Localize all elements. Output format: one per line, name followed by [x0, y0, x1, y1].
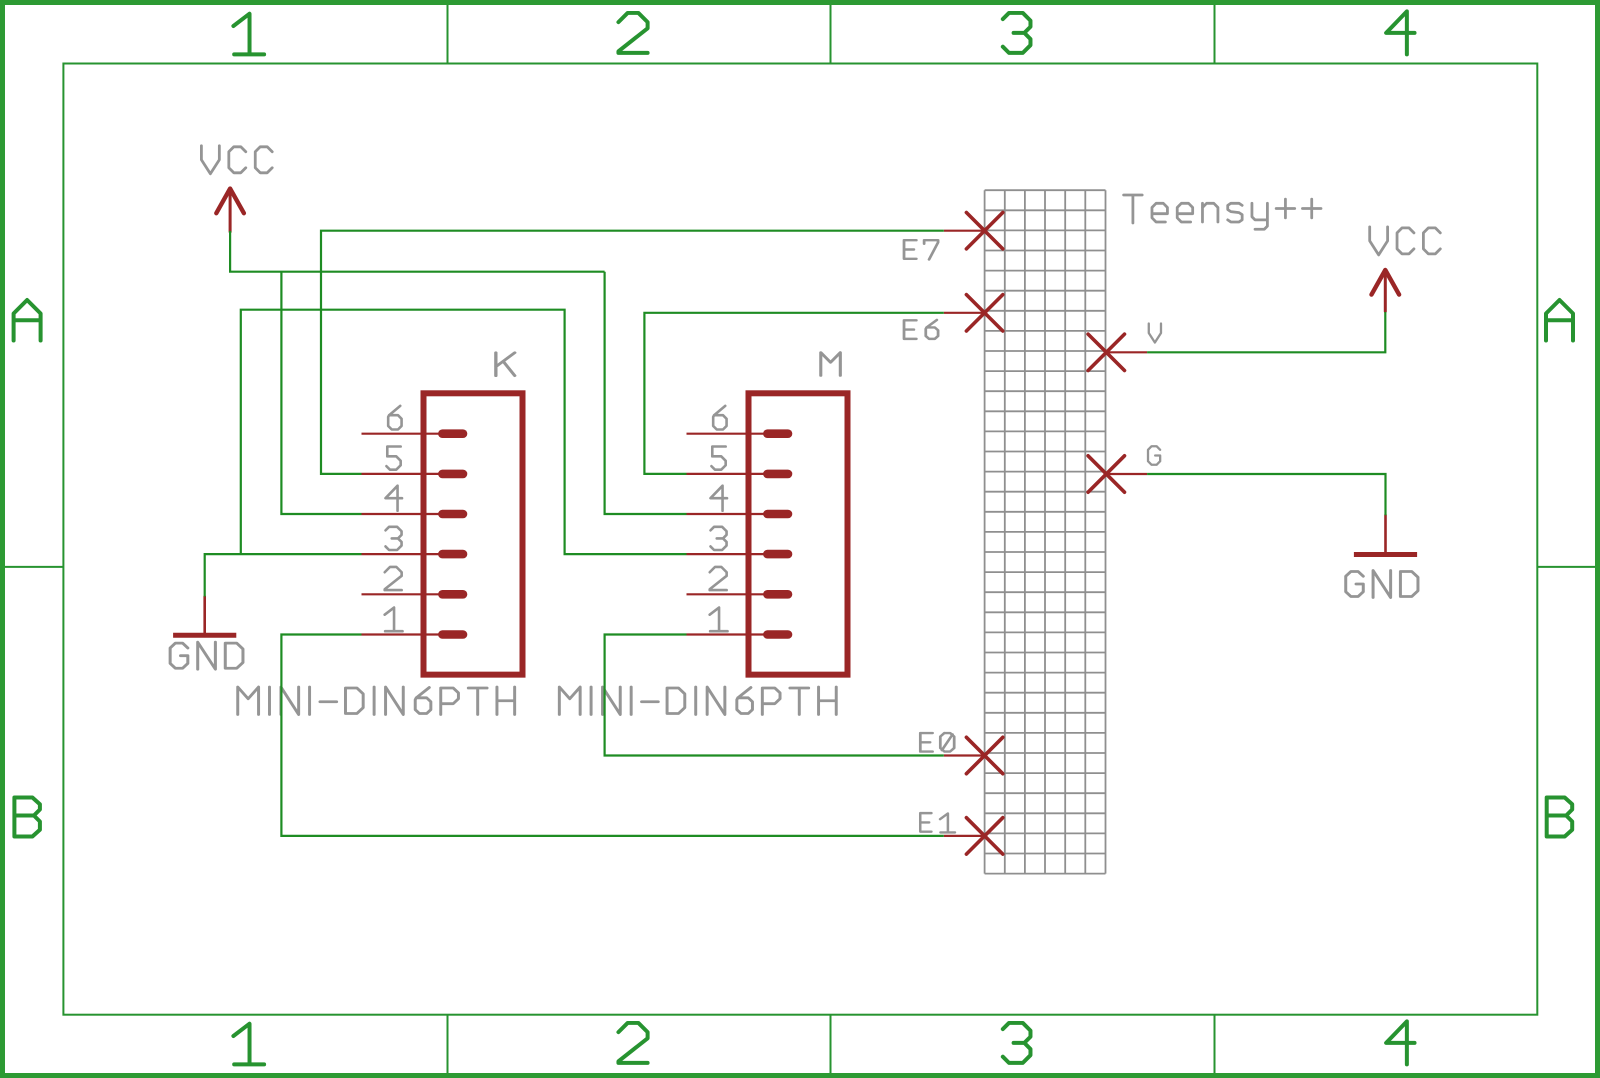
label Teensy++ — [1124, 195, 1321, 229]
label K — [496, 353, 515, 376]
frame right tick — [1537, 566, 1595, 568]
pin name E7 — [904, 240, 938, 259]
pin E7 (not-connected X) — [944, 230, 985, 232]
wire net VCC: down and across to M pin 4 — [605, 272, 687, 514]
frame column label 3 top — [1003, 13, 1031, 53]
pin G (not-connected X) — [1106, 473, 1147, 475]
frame column label 4 bottom — [1386, 1021, 1414, 1064]
supply VCC symbol (right) — [1372, 270, 1400, 311]
pin K-2 lead and pad — [362, 593, 447, 595]
frame top tick 1 — [447, 5, 449, 64]
label VCC (left) — [201, 146, 272, 174]
wire net VCC: branch down to K pin 4 — [281, 272, 361, 514]
pin K-6 lead and pad — [362, 433, 447, 435]
pin name E1 — [920, 813, 955, 832]
wire net KDATA: K pin 1 left, down, across to Teensy E1 — [281, 635, 943, 836]
pin E0 (not-connected X) — [944, 754, 985, 756]
supply VCC symbol (left) — [216, 189, 244, 232]
frame column label 1 top — [233, 14, 264, 55]
wire net MDATA: M pin 1 left, down, across to Teensy E0 — [605, 635, 944, 756]
wire net VCC: left VCC symbol down and across to x605 — [230, 231, 604, 272]
wire net MCLK: M pin 5 left, up at x644, across to Teensy E6 — [644, 313, 943, 474]
frame bottom tick 1 — [447, 1015, 449, 1073]
pin number 6 of M — [713, 406, 726, 430]
pin M-3 lead and pad — [687, 553, 772, 555]
pin number 2 of M — [710, 567, 727, 590]
pin K-1 lead and pad — [362, 633, 447, 635]
pin V (not-connected X) — [1106, 351, 1147, 353]
frame column label 2 bottom — [618, 1023, 647, 1063]
label M — [821, 353, 841, 376]
pin K-4 lead and pad — [362, 513, 447, 515]
frame row label A left — [14, 300, 41, 341]
pin E6 (not-connected X) — [944, 312, 985, 314]
pin number 4 of K — [385, 486, 402, 511]
pin number 1 of K — [385, 608, 403, 632]
IC Teensy++ grid body — [985, 190, 1106, 873]
ground GND symbol (right) — [1354, 515, 1417, 555]
frame top tick 2 — [830, 5, 832, 64]
wire net GND2: Teensy G pin across and down to right GND symbol — [1147, 474, 1385, 515]
wire net VCC2: Teensy V pin across and up to right VCC symbol — [1147, 312, 1385, 352]
frame row label B right — [1547, 798, 1573, 837]
pin E1 (not-connected X) — [944, 835, 985, 837]
wire net GND: left GND symbol up and across to K pin 3 — [205, 554, 362, 596]
pin number 1 of M — [710, 608, 728, 632]
pin number 5 of K — [386, 446, 400, 469]
connector M body — [749, 393, 848, 674]
frame left tick — [5, 566, 63, 568]
frame column label 4 top — [1386, 11, 1414, 54]
frame bottom tick 2 — [830, 1015, 832, 1073]
pin name G — [1148, 446, 1160, 465]
label GND (right) — [1346, 570, 1418, 597]
pin number 2 of K — [385, 567, 402, 590]
pin number 4 of M — [710, 486, 727, 511]
pin name E6 — [904, 320, 938, 339]
pin number 3 of M — [710, 527, 726, 550]
pin M-1 lead and pad — [687, 633, 772, 635]
label GND (left) — [170, 642, 243, 669]
wire net GND: branch up at x240.8 across and down to M pin 3 — [241, 310, 687, 554]
ground GND symbol (left) — [173, 596, 236, 636]
wire net KCLK: K pin 5 left, up, across to Teensy E7 — [321, 231, 944, 474]
frame bottom tick 3 — [1214, 1015, 1216, 1073]
pin K-5 lead and pad — [362, 473, 447, 475]
frame row label B left — [14, 798, 40, 837]
pin M-5 lead and pad — [687, 473, 772, 475]
pin number 6 of K — [388, 406, 401, 430]
frame column label 2 top — [618, 13, 647, 53]
pin name E0 — [920, 733, 954, 752]
pin M-6 lead and pad — [687, 433, 772, 435]
pin number 5 of M — [711, 446, 725, 469]
pin M-4 lead and pad — [687, 513, 772, 515]
frame column label 3 bottom — [1003, 1023, 1031, 1063]
connector K body — [424, 393, 523, 674]
frame top tick 3 — [1214, 5, 1216, 64]
value MINI-DIN6PTH (M) — [559, 687, 836, 714]
frame row label A right — [1546, 300, 1573, 341]
frame column label 1 bottom — [233, 1024, 264, 1065]
pin number 3 of K — [385, 527, 401, 550]
pin M-2 lead and pad — [687, 593, 772, 595]
value MINI-DIN6PTH (K) — [238, 687, 515, 714]
pin K-3 lead and pad — [362, 553, 447, 555]
pin name V — [1149, 323, 1161, 342]
label VCC (right) — [1370, 227, 1441, 255]
